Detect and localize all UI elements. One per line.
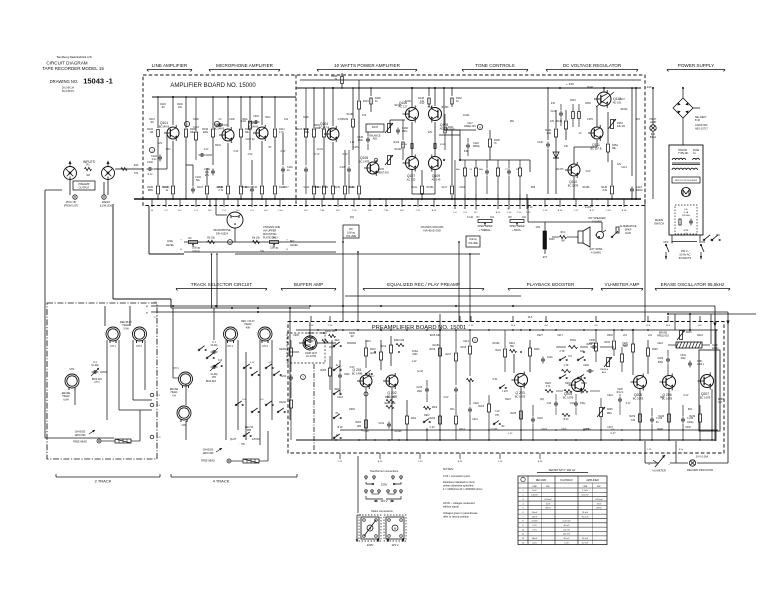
amplifier board internal dashed divider: [295, 75, 297, 206]
alternative spkr jack note: [620, 225, 637, 235]
svg-text:REC: REC: [335, 340, 340, 342]
2T chassis ground: [73, 430, 101, 444]
transistor Q103: [248, 121, 268, 141]
svg-text:RECORD INDICATOR: RECORD INDICATOR: [687, 468, 713, 472]
svg-text:C114b: C114b: [463, 115, 470, 117]
svg-text:23.8V: 23.8V: [405, 101, 411, 103]
wire to preamp right edge A: [645, 306, 717, 441]
preamp bottom rail upper: [340, 429, 718, 431]
svg-text:C203: C203: [337, 397, 343, 399]
svg-text:C.18: C.18: [606, 210, 611, 212]
wire Q104 emitter down: [322, 142, 334, 199]
svg-text:R219b: R219b: [493, 343, 500, 345]
svg-text:CH 2: CH 2: [262, 345, 268, 348]
bus wire to preamp (upper): [151, 305, 645, 307]
svg-text:Q107: Q107: [407, 174, 415, 178]
reg wires: [551, 87, 622, 199]
power amp extra col 349: [340, 150, 351, 194]
4T chassis ground: [201, 448, 231, 463]
4T feed pair from level bus: [211, 253, 218, 308]
wire: left drop to free head: [45, 190, 114, 438]
svg-text:1M: 1M: [86, 173, 90, 177]
speaker wires: [522, 199, 602, 254]
svg-text:RADIO: RADIO: [102, 200, 110, 204]
svg-text:0.2V: 0.2V: [586, 171, 591, 173]
svg-text:DIN 41524: DIN 41524: [216, 233, 229, 236]
svg-text:C1b3: C1b3: [193, 127, 199, 129]
svg-text:R222: R222: [479, 406, 485, 408]
svg-text:LEVEL: LEVEL: [166, 243, 175, 247]
bus junction dots: [172, 305, 514, 313]
left bus terminals: [146, 302, 158, 319]
svg-text:7 1/2: 7 1/2: [494, 411, 500, 413]
svg-text:12V: 12V: [617, 163, 622, 166]
speaker feed caps C117: [441, 130, 453, 199]
svg-text:6.7V: 6.7V: [315, 153, 320, 156]
bottom res col 359: [348, 128, 360, 199]
svg-text:(FROM LIST): (FROM LIST): [64, 205, 79, 208]
svg-text:0.5mV: 0.5mV: [531, 521, 538, 523]
svg-text:B.18: B.18: [622, 210, 627, 212]
svg-text:1V: 1V: [579, 132, 582, 135]
svg-text:180Ep 24V: 180Ep 24V: [464, 125, 476, 128]
svg-text:VOLUME: VOLUME: [346, 235, 357, 238]
svg-text:unless otherwise specified: unless otherwise specified: [443, 484, 474, 488]
transistor Q101: [159, 121, 179, 141]
svg-text:1 kHz: 1 kHz: [502, 391, 509, 393]
svg-text:C114: C114: [303, 186, 309, 189]
section header: TONE CONTROLS: [462, 63, 528, 72]
svg-text:C215: C215: [417, 387, 423, 389]
amplifier board no. 15000 dashed outline: [143, 75, 645, 206]
svg-text:160u: 160u: [358, 139, 364, 142]
ground bus (amplifier board): [134, 198, 641, 200]
svg-text:CH1: CH1: [69, 368, 75, 371]
svg-text:R220: R220: [430, 418, 436, 420]
svg-text:95 mV: 95 mV: [582, 538, 589, 540]
section header: PLAYBACK BOOSTER: [508, 282, 593, 291]
svg-text:0.7A: 0.7A: [684, 211, 689, 214]
resistor R144 39k: [607, 135, 619, 162]
svg-text:(LOW LEV): (LOW LEV): [100, 205, 112, 208]
svg-text:R129: R129: [342, 118, 348, 121]
svg-text:115V/AC: 115V/AC: [682, 214, 691, 217]
svg-text:1M: 1M: [150, 131, 153, 134]
microphone connector: [213, 212, 243, 236]
svg-text:4.5V: 4.5V: [166, 149, 171, 151]
wire y296 segment: [345, 252, 521, 306]
svg-text:1.7V: 1.7V: [532, 529, 537, 531]
svg-text:22V: 22V: [636, 119, 641, 121]
svg-text:R127: R127: [328, 128, 334, 131]
svg-text:24V: 24V: [551, 102, 556, 105]
svg-text:BC 147B: BC 147B: [359, 159, 370, 163]
svg-text:10k log: 10k log: [192, 247, 200, 250]
svg-text:C104b: C104b: [163, 187, 170, 189]
svg-text:0.6V: 0.6V: [281, 150, 286, 153]
svg-text:MIC: MIC: [597, 486, 601, 488]
motor caps dotted box: [675, 205, 697, 235]
bottom res col 345: [334, 150, 346, 199]
left component stack: [279, 340, 293, 440]
series resistor R1 1M: [85, 163, 92, 178]
svg-text:26.6: 26.6: [528, 317, 533, 319]
svg-text:R148: R148: [587, 87, 593, 89]
svg-text:15043 -1: 15043 -1: [83, 77, 113, 86]
svg-text:R12b: R12b: [303, 117, 309, 119]
chassis-gnd note (mic): [263, 226, 280, 240]
svg-text:C223: C223: [607, 395, 613, 397]
svg-text:C.15: C.15: [526, 212, 531, 214]
resistor R146 bottom: [601, 160, 613, 199]
svg-text:R73A: R73A: [570, 339, 576, 342]
svg-text:R119: R119: [394, 142, 400, 144]
svg-text:CH 1: CH 1: [110, 345, 116, 348]
bridge rectifier: [666, 87, 700, 145]
svg-text:R150: R150: [585, 103, 591, 105]
transistor Q110: [565, 162, 580, 187]
svg-text:PLAYBACK BOOSTER: PLAYBACK BOOSTER: [527, 282, 575, 287]
svg-text:0.6V: 0.6V: [420, 103, 425, 105]
svg-text:PLATE ONLY: PLATE ONLY: [263, 237, 278, 240]
svg-text:3.9H: 3.9H: [123, 327, 128, 330]
svg-text:EQUALIZED REC / PLAY PREAMP: EQUALIZED REC / PLAY PREAMP: [387, 282, 460, 287]
svg-text:R221b: R221b: [279, 402, 286, 404]
svg-text:R148b: R148b: [583, 187, 590, 189]
svg-text:8.5 mV: 8.5 mV: [582, 516, 589, 518]
svg-text:R137: R137: [372, 125, 379, 129]
osc cap C229: [658, 350, 671, 375]
svg-text:PB4: PB4: [247, 430, 252, 432]
svg-text:0.2V: 0.2V: [684, 395, 689, 397]
node 2 circled: [184, 121, 189, 126]
svg-text:3.3k: 3.3k: [602, 189, 607, 192]
svg-text:R218: R218: [461, 347, 467, 349]
svg-text:REC 50: REC 50: [245, 427, 254, 429]
svg-text:GROUND: GROUND: [75, 434, 86, 437]
wires output stage: [390, 87, 460, 195]
svg-text:C302: C302: [253, 116, 259, 118]
resistor R116 bottom: [274, 158, 286, 199]
svg-text:R225: R225: [511, 413, 517, 415]
svg-text:4 TRACK: 4 TRACK: [213, 479, 230, 484]
erase coil (hatched): [668, 342, 719, 350]
resistor R127: [323, 88, 335, 160]
bottom res col 324: [313, 160, 325, 199]
erase head label (2T): [62, 392, 71, 401]
svg-text:Mains connections: Mains connections: [371, 509, 393, 513]
svg-text:R131: R131: [363, 100, 369, 103]
resistor R108b 7k top: [331, 62, 343, 88]
svg-text:45 mV: 45 mV: [563, 525, 570, 527]
transistor Q108: [429, 106, 449, 131]
cap C120 zener col: [537, 88, 580, 194]
section header: EQUALIZED REC / PLAY PREAMP: [363, 282, 484, 291]
svg-text:R203: R203: [321, 333, 327, 335]
svg-text:OUTPUT: OUTPUT: [79, 186, 90, 190]
resistor R129 top: [342, 88, 354, 150]
svg-text:100 mV: 100 mV: [563, 534, 571, 536]
svg-text:100V: 100V: [412, 354, 418, 356]
osc box: [699, 350, 720, 431]
svg-text:R131c: R131c: [349, 187, 356, 189]
q201 to q202 wire: [317, 330, 356, 352]
svg-text:B.12: B.12: [496, 212, 501, 214]
svg-text:120mV: 120mV: [531, 495, 538, 497]
svg-text:5mV: 5mV: [532, 490, 537, 492]
svg-text:B.18: B.18: [338, 427, 343, 429]
svg-text:R205 220k: R205 220k: [384, 403, 396, 405]
2T free head resistor: [101, 410, 140, 443]
svg-text:4 OHMS: 4 OHMS: [592, 220, 602, 224]
node 3 circled: [214, 121, 219, 126]
svg-text:R220b: R220b: [279, 349, 286, 351]
svg-text:CH 1: CH 1: [94, 382, 100, 384]
svg-text:24V: 24V: [550, 121, 555, 123]
Q205 top parts: [623, 314, 659, 375]
rec sw labels: [335, 340, 340, 437]
current adj trimmer: [373, 155, 393, 175]
svg-text:10-40p: 10-40p: [210, 374, 218, 376]
svg-text:R134: R134: [402, 144, 408, 146]
Q202 bottom parts: [356, 388, 418, 440]
svg-text:10k log: 10k log: [192, 251, 200, 253]
wire Q101 collector up: [172, 96, 174, 125]
osc emitter parts: [659, 389, 725, 440]
svg-text:R103: R103: [160, 104, 166, 106]
svg-text:LINE: LINE: [583, 486, 588, 488]
transistor Q206: [660, 374, 676, 401]
alt spkr switch: [611, 227, 619, 238]
svg-text:MICROPHONE AMPLIFIER: MICROPHONE AMPLIFIER: [216, 63, 274, 68]
eq input cap: [417, 380, 438, 440]
svg-text:C.B.: C.B.: [684, 209, 689, 211]
resistor R113 bottom: [240, 158, 252, 199]
wire to preamp right edge B: [668, 312, 730, 463]
svg-text:C212: C212: [379, 423, 385, 425]
svg-text:BC 107B: BC 107B: [568, 183, 579, 187]
svg-text:2.7k: 2.7k: [218, 189, 223, 192]
svg-text:220k: 220k: [203, 131, 209, 134]
transistor Q109: [429, 155, 442, 182]
transistor Q107: [403, 155, 419, 182]
svg-text:R217: R217: [446, 354, 452, 356]
svg-text:PREAMP: PREAMP: [79, 182, 90, 186]
svg-text:C.23: C.23: [418, 461, 423, 463]
label +34V: [559, 82, 574, 89]
svg-text:10k 4%: 10k 4%: [617, 125, 626, 128]
svg-text:C.9b: C.9b: [384, 210, 389, 212]
regulator extra greek: [587, 87, 641, 121]
svg-text:TREBLE: TREBLE: [600, 369, 609, 371]
svg-text:C.1b: C.1b: [278, 210, 283, 212]
wire: pickup drop ch1: [113, 204, 171, 308]
svg-text:+ 34V: + 34V: [566, 82, 574, 86]
preamp extra col 470: [461, 330, 474, 440]
power amp extra col 306: [297, 88, 309, 194]
svg-text:SPEC TAPER: SPEC TAPER: [478, 225, 493, 228]
title block: Tandberg Radiofabrikk: [42, 55, 113, 93]
svg-text:50u: 50u: [196, 179, 201, 182]
Q203 bottom: [507, 387, 543, 440]
svg-text:1000p: 1000p: [687, 422, 694, 424]
svg-text:C.6b: C.6b: [320, 210, 325, 212]
input jack J1 (left): [64, 161, 77, 180]
svg-text:2 TR: 2 TR: [560, 351, 565, 353]
bias trimmer C2 (2T): [91, 361, 102, 384]
svg-text:R206: R206: [305, 345, 311, 347]
svg-text:BC 149B: BC 149B: [352, 371, 363, 375]
preamp 24v rail dots: [317, 329, 649, 331]
svg-text:LEVEL: LEVEL: [290, 243, 299, 247]
emphasis cap black bar: [536, 222, 555, 259]
Q203 top network: [509, 330, 553, 373]
svg-text:1M: 1M: [150, 122, 153, 124]
resistor R102 1M: [147, 97, 159, 168]
svg-text:680k: 680k: [148, 189, 154, 192]
mains switch label: [654, 218, 664, 226]
svg-text:R136b: R136b: [427, 187, 434, 189]
svg-text:VIA HEAD GND: VIA HEAD GND: [423, 230, 441, 233]
resistor R114 4.7k: [274, 97, 286, 158]
svg-text:C.20b: C.20b: [585, 207, 592, 209]
reg output label: [644, 85, 652, 89]
amp board bottom ticks: [151, 199, 627, 212]
svg-text:C.26: C.26: [328, 325, 333, 327]
svg-text:1.9V: 1.9V: [570, 403, 575, 405]
svg-text:ERASE OSCILLATOR 85,5kHz: ERASE OSCILLATOR 85,5kHz: [661, 282, 725, 287]
vu-meter (bottom): [648, 455, 670, 473]
cap C108 bottom: [241, 160, 254, 199]
svg-text:C234: C234: [281, 376, 287, 378]
svg-text:60 WATTS: 60 WATTS: [679, 256, 692, 260]
svg-text:C.21: C.21: [338, 461, 343, 463]
svg-text:0.9V: 0.9V: [350, 367, 355, 369]
svg-text:CIRCUIT DIAGRAM: CIRCUIT DIAGRAM: [46, 61, 87, 66]
preamp output label box: [73, 181, 95, 190]
cap C138 200u: [396, 127, 408, 135]
svg-text:C217: C217: [557, 335, 563, 337]
svg-text:C113: C113: [315, 187, 321, 189]
svg-text:R147b: R147b: [557, 169, 564, 171]
svg-text:TAPE RECORDER MODEL 15: TAPE RECORDER MODEL 15: [42, 66, 104, 71]
motor: [681, 187, 690, 196]
svg-text:R235: R235: [607, 409, 613, 411]
wire Q102 collector: [227, 96, 229, 127]
section header: BUFFER AMP: [281, 282, 336, 291]
tone network top label: [460, 122, 476, 130]
svg-text:R147: R147: [619, 99, 625, 101]
section header: DC VOLTAGE REGULATOR: [546, 63, 638, 72]
trimmer R145 voltage adj: [608, 119, 626, 129]
wire Q103 collector: [261, 96, 263, 125]
svg-text:C224: C224: [657, 343, 663, 345]
resistor R105 680k (bottom): [147, 168, 159, 199]
svg-text:MIC: MIC: [546, 486, 550, 488]
4T bias trimmers: [206, 342, 223, 383]
svg-text:R101: R101: [149, 119, 155, 121]
volume box R5: [343, 225, 359, 238]
svg-text:R123: R123: [297, 129, 303, 131]
svg-text:C227: C227: [607, 427, 613, 429]
preamp extra col 614: [605, 330, 616, 356]
svg-text:C13: C13: [362, 115, 367, 117]
svg-text:B.17: B.17: [590, 210, 595, 212]
preamp extra col 596: [587, 330, 598, 362]
svg-text:C40: C40: [631, 420, 636, 422]
2-track dash-dot box: [47, 303, 157, 459]
svg-text:GROUND: GROUND: [203, 452, 214, 455]
svg-text:TRANSF: TRANSF: [678, 149, 688, 152]
svg-text:R1: R1: [86, 163, 90, 167]
svg-text:R129b: R129b: [395, 105, 402, 107]
svg-text:OFF: OFF: [663, 240, 669, 244]
svg-text:C.10: C.10: [517, 212, 522, 214]
section header: VU-METER AMP: [601, 282, 643, 291]
svg-text:ON: ON: [716, 234, 720, 237]
svg-text:1.5V: 1.5V: [564, 542, 569, 544]
label 6.7V / 6.2V: [315, 153, 348, 156]
power amp label greek 1: [314, 101, 433, 144]
wire: radio drop ch2: [105, 206, 184, 326]
motor label box: [672, 177, 700, 183]
svg-text:12V: 12V: [158, 141, 163, 145]
svg-text:C.16: C.16: [543, 210, 548, 212]
svg-text:Q207: Q207: [701, 392, 709, 396]
ext spkr label: [590, 247, 603, 255]
tone bottom ticks: [453, 194, 531, 214]
svg-text:4.5V: 4.5V: [338, 119, 343, 121]
svg-text:115 V: 115 V: [380, 499, 387, 503]
svg-text:AMPLIFIER: AMPLIFIER: [586, 479, 599, 482]
section header: LINE AMPLIFIER: [147, 63, 192, 72]
svg-text:R.2kk: R.2kk: [412, 351, 419, 353]
svg-text:R212: R212: [381, 346, 387, 348]
rec/play head label (2T): [120, 321, 133, 330]
svg-text:EXTRA: EXTRA: [252, 438, 260, 441]
svg-text:AMPLIFIER BOARD NO. 1: AMPLIFIER BOARD NO. 15000: [170, 83, 256, 89]
wire Q104 collector up: [332, 87, 334, 126]
svg-text:DRAWING NO.: DRAWING NO.: [50, 79, 79, 84]
svg-text:N.P: N.P: [698, 325, 702, 327]
svg-text:230 V~: 230 V~: [681, 249, 690, 253]
wire: jack1 down to pickup: [70, 180, 75, 195]
ground bus junction dots: [157, 198, 633, 200]
svg-text:C 226: C 226: [656, 418, 663, 420]
svg-text:12.4V: 12.4V: [317, 149, 323, 151]
line/mic level bus bottom: [184, 252, 480, 254]
svg-text:POWER SUPPLY: POWER SUPPLY: [678, 63, 714, 68]
svg-text:PICK UP: PICK UP: [66, 200, 77, 204]
line amp extra greek: [160, 97, 199, 160]
bottom res col 422: [411, 170, 423, 199]
svg-text:R108c: R108c: [217, 187, 224, 189]
svg-text:← PB →: ← PB →: [239, 444, 248, 446]
svg-text:1.4k: 1.4k: [546, 132, 551, 135]
svg-text:1600u: 1600u: [636, 189, 643, 192]
resistor Ra 15k: [252, 237, 260, 244]
4-track erase head ch2: [177, 406, 191, 427]
4T switch col 1: [198, 346, 222, 367]
svg-text:R214: R214: [459, 429, 465, 431]
cap C106 22u 25V: [204, 168, 215, 177]
vu amp label parts: [610, 389, 624, 435]
svg-text:CURRENT ADJ: CURRENT ADJ: [373, 172, 389, 175]
svg-text:C213b: C213b: [491, 429, 498, 431]
svg-text:R205: R205: [321, 370, 327, 372]
svg-text:MTR: MTR: [684, 230, 689, 232]
svg-text:R152b: R152b: [621, 109, 628, 111]
